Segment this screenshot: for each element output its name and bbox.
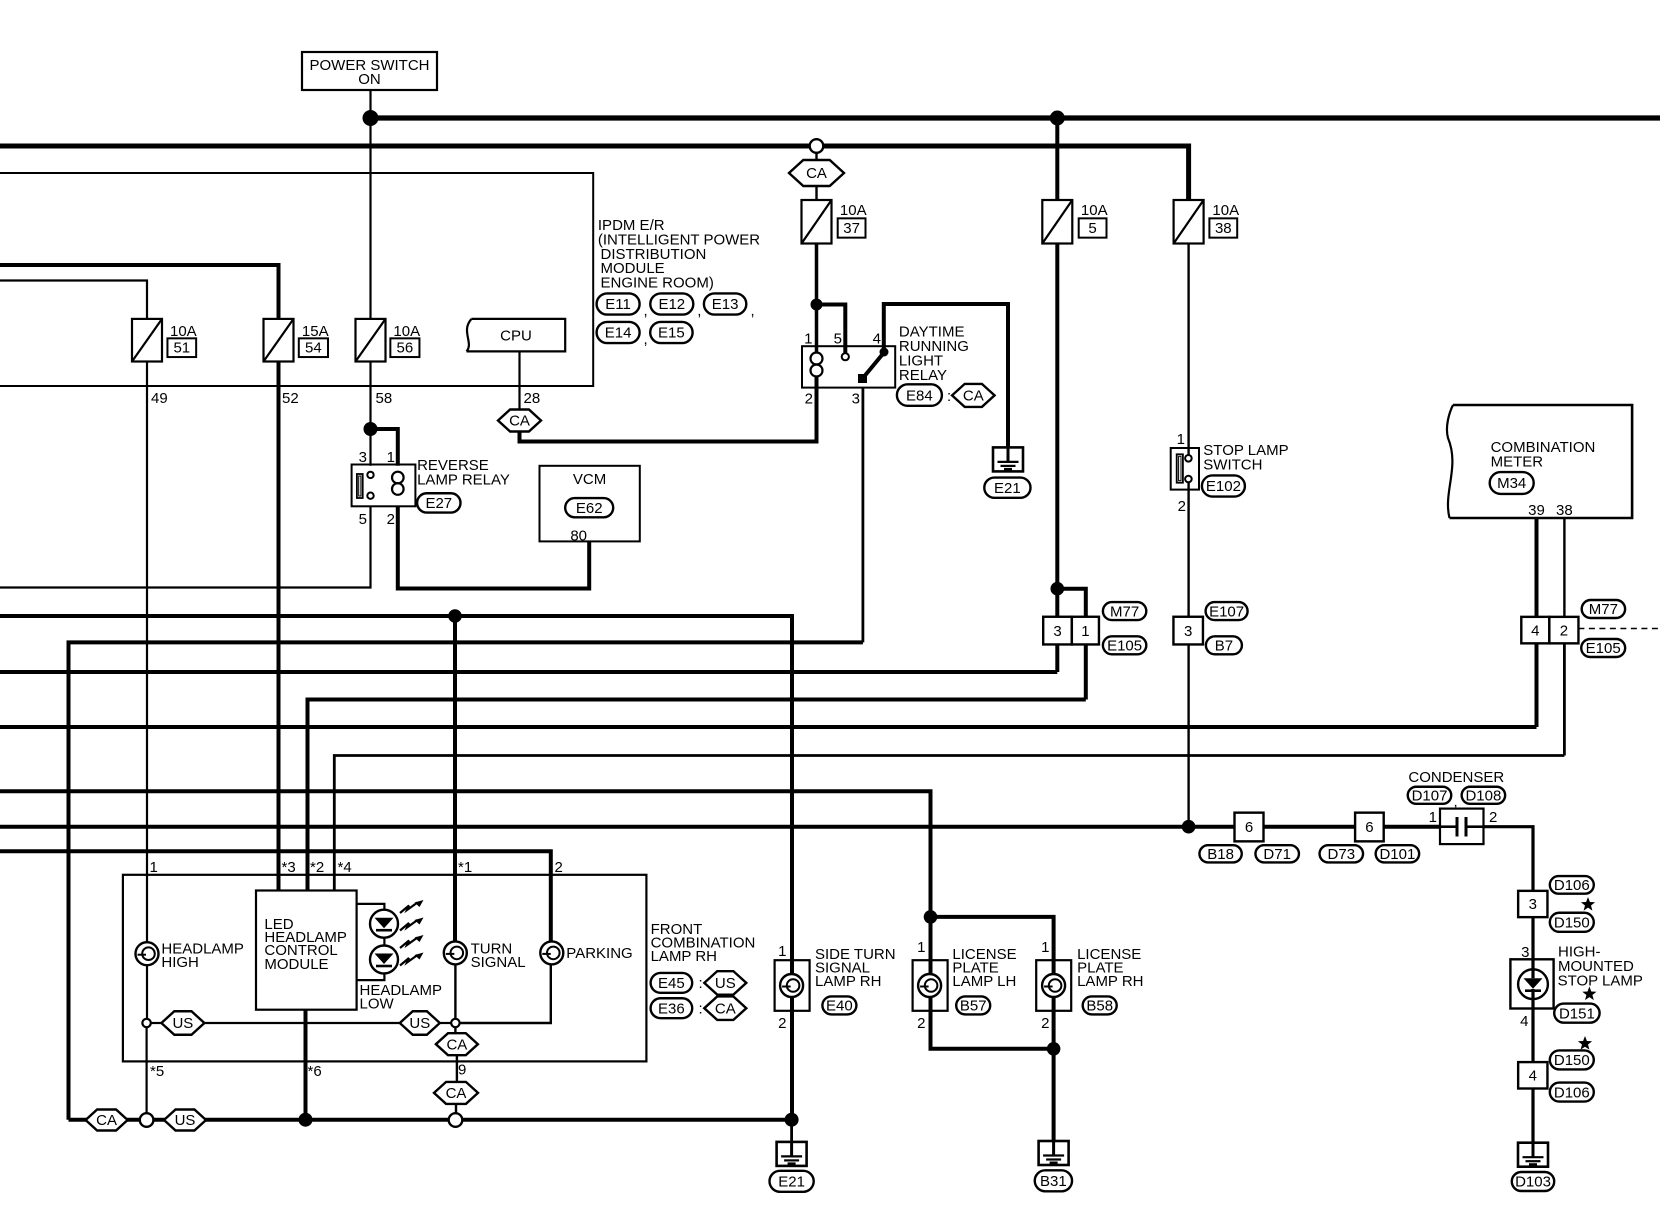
pin 52 (282, 390, 299, 407)
connector E62 (565, 498, 613, 517)
svg-text:LAMP RELAY: LAMP RELAY (417, 472, 510, 489)
node license ground (1047, 1042, 1061, 1056)
wire L7 (334, 756, 1564, 891)
wire branch to box1 (1057, 589, 1086, 617)
node condenser tap (1182, 820, 1196, 834)
svg-text:2: 2 (917, 1015, 925, 1032)
connector E15 (650, 322, 692, 343)
headlamp high bulb (136, 942, 159, 965)
terminal circle turn (451, 1019, 459, 1027)
turn signal bulb (444, 941, 467, 964)
svg-text:D106: D106 (1554, 1084, 1590, 1101)
connector box M77-E105 pin3 (1043, 617, 1072, 645)
connector US lamp1 (161, 1011, 204, 1035)
connector E105 right (1581, 639, 1625, 657)
pin 58 (376, 390, 393, 407)
svg-text:E13: E13 (712, 296, 739, 313)
wire box2 to L7 (1563, 643, 1566, 755)
svg-text:5: 5 (1088, 220, 1096, 237)
wire reverse relay pin5 to L1 (0, 506, 371, 587)
svg-text:10A: 10A (840, 202, 867, 219)
svg-text:28: 28 (524, 390, 541, 407)
svg-text:D150: D150 (1554, 915, 1590, 932)
front combination lamp name (651, 921, 756, 965)
wire US1 to US2 (205, 1022, 400, 1024)
connector E107 (1206, 602, 1248, 620)
svg-text:58: 58 (376, 390, 393, 407)
svg-text:*5: *5 (150, 1063, 164, 1080)
svg-text:B57: B57 (960, 998, 987, 1015)
wire turn bulb to circle (454, 964, 456, 1018)
IPDM E/R text block (598, 217, 760, 292)
svg-text:CA: CA (446, 1036, 467, 1053)
wire bottom ground bus (69, 1118, 792, 1122)
svg-text:3: 3 (852, 391, 860, 408)
combination meter box (1447, 405, 1632, 518)
wire box3r to lamp (1531, 917, 1534, 962)
connector box 3 D106-D150 (1518, 891, 1547, 917)
wire daytime relay pin 4 to ground (884, 304, 1008, 447)
svg-text:E107: E107 (1209, 603, 1244, 620)
fuse 54 15A (264, 319, 294, 362)
svg-text:CA: CA (806, 165, 827, 182)
svg-text:3: 3 (1184, 623, 1192, 640)
terminal circle bus left (140, 1113, 154, 1127)
connector D103 (1512, 1172, 1554, 1191)
wire bulb to circle (146, 965, 148, 1019)
connector E36 (651, 998, 693, 1018)
connector D150 b (1550, 1050, 1594, 1069)
pin 2 daytime (805, 391, 813, 408)
connector B57 (956, 996, 990, 1014)
svg-text:CA: CA (96, 1112, 117, 1129)
svg-text:PARKING: PARKING (566, 945, 632, 962)
condenser name (1408, 769, 1504, 786)
CPU box (467, 319, 566, 352)
wire parking to junction (460, 964, 551, 1023)
svg-text:D151: D151 (1559, 1005, 1595, 1022)
svg-text:LAMP RH: LAMP RH (651, 948, 717, 965)
connector CA 9b (434, 1082, 478, 1104)
svg-text:CPU: CPU (500, 328, 532, 345)
svg-text:M34: M34 (1497, 475, 1526, 492)
svg-text:D150: D150 (1554, 1052, 1590, 1069)
svg-text:*4: *4 (338, 859, 352, 876)
reverse relay coil (392, 472, 404, 495)
svg-text:M77: M77 (1589, 601, 1618, 618)
label 10A fuse51 (170, 323, 197, 340)
VCM label (573, 471, 606, 488)
pin 1 condenser (1429, 809, 1437, 826)
svg-text:1: 1 (150, 859, 158, 876)
fuse 51 10A (132, 319, 162, 362)
wire box3 to L4 (1055, 645, 1059, 673)
wire box4 to L6 (1535, 643, 1539, 727)
module led bracket (357, 904, 385, 980)
svg-text:*2: *2 (310, 859, 324, 876)
wire node to reverse relay pin 3 (369, 429, 371, 466)
svg-text:US: US (715, 975, 736, 992)
svg-text:METER: METER (1491, 454, 1544, 471)
daytime relay coil (811, 353, 823, 377)
wire circle to CA44 (454, 1027, 456, 1033)
svg-text:6: 6 (1245, 819, 1253, 836)
pin *1 lamp (458, 859, 472, 876)
node bus A at power switch (363, 110, 379, 126)
stop lamp switch box (1171, 448, 1199, 490)
wire L4 (0, 670, 1057, 674)
pin 1 license RH (1041, 939, 1049, 956)
license RH bulb (1042, 974, 1065, 997)
connector E40 (822, 996, 856, 1014)
svg-text:LAMP RH: LAMP RH (1077, 973, 1143, 990)
connector E84 (897, 384, 942, 406)
connector CA bus B (789, 160, 844, 186)
svg-text:SIGNAL: SIGNAL (471, 954, 526, 971)
license RH lamp box (1036, 960, 1071, 1011)
led arrows (400, 900, 424, 966)
fuse 56 10A (356, 319, 386, 362)
svg-text:E45: E45 (658, 975, 685, 992)
svg-text:E105: E105 (1107, 638, 1142, 655)
svg-text:LAMP RH: LAMP RH (815, 973, 881, 990)
svg-text:E14: E14 (605, 325, 632, 342)
wire power switch stem (369, 90, 371, 118)
svg-text:49: 49 (151, 390, 168, 407)
connector E45 (651, 973, 693, 993)
connector D106 a (1550, 876, 1594, 894)
connector CA 9a (436, 1033, 478, 1055)
parking bulb (540, 941, 563, 964)
node bus *6 (299, 1113, 313, 1127)
connector box M77-E105 pin4 (1521, 617, 1549, 644)
svg-text:E12: E12 (658, 296, 685, 313)
svg-text:US: US (409, 1015, 430, 1032)
svg-text:B7: B7 (1215, 638, 1233, 655)
connector US E45 (704, 971, 746, 995)
pin 5 daytime (834, 331, 842, 348)
star D151 (1582, 987, 1596, 1001)
svg-text:54: 54 (305, 340, 322, 357)
svg-text:2: 2 (778, 1015, 786, 1032)
connector D107 (1408, 787, 1452, 805)
svg-text:D71: D71 (1263, 846, 1291, 863)
connector E102 (1202, 475, 1245, 496)
svg-text:5: 5 (359, 511, 367, 528)
svg-text:1: 1 (1041, 939, 1049, 956)
wire node to reverse relay pin 1 (371, 429, 398, 466)
svg-text:2: 2 (1178, 498, 1186, 515)
connector E13 (704, 293, 746, 314)
svg-text:HIGH: HIGH (161, 954, 199, 971)
reverse relay contacts (367, 472, 373, 499)
svg-text:LAMP LH: LAMP LH (952, 973, 1016, 990)
side turn lamp box (775, 960, 810, 1011)
connector D108 (1462, 787, 1506, 805)
svg-text:2: 2 (1489, 809, 1497, 826)
reverse relay contact bar (357, 474, 363, 498)
license RH name (1077, 946, 1143, 990)
svg-text:B31: B31 (1040, 1173, 1067, 1190)
pin 2 license RH (1041, 1015, 1049, 1032)
svg-text:2: 2 (555, 859, 563, 876)
pin 49 (151, 390, 168, 407)
pin 2 lamp (555, 859, 563, 876)
colon E84 (947, 388, 951, 405)
svg-text:52: 52 (282, 390, 299, 407)
connector D106 b (1550, 1083, 1594, 1102)
wire L2 turn signal bus (0, 616, 792, 1120)
svg-text:RELAY: RELAY (899, 367, 947, 384)
comma 2 (697, 303, 701, 320)
pin 80 VCM (570, 528, 587, 545)
wire CA to fuse 37 (815, 186, 817, 200)
svg-text:E15: E15 (658, 325, 685, 342)
node daytime relay feed (811, 299, 823, 311)
wire side turn ground stem (790, 1120, 793, 1142)
comma 4 (644, 331, 648, 348)
wire reverse relay pin2 to VCM (398, 506, 589, 588)
svg-text:1: 1 (1081, 623, 1089, 640)
pin 4 daytime (873, 331, 881, 348)
fuse 5 10A (1042, 200, 1072, 244)
pin *4 lamp (338, 859, 352, 876)
license LH name (952, 946, 1016, 990)
svg-text:*1: *1 (458, 859, 472, 876)
ground symbol E21 bottom (777, 1142, 807, 1166)
svg-text:VCM: VCM (573, 471, 606, 488)
svg-text:9: 9 (458, 1062, 466, 1079)
reverse relay box (352, 465, 416, 507)
node license branch (924, 910, 938, 924)
node reverse relay feed (364, 422, 378, 436)
svg-text:E102: E102 (1206, 478, 1241, 495)
connector B31 (1035, 1170, 1072, 1191)
svg-text:10A: 10A (1212, 202, 1239, 219)
svg-text:56: 56 (397, 340, 414, 357)
svg-text:39: 39 (1528, 502, 1545, 519)
svg-text:,: , (697, 303, 701, 320)
svg-text:E11: E11 (605, 296, 631, 313)
wire fuse 54 feed (0, 265, 279, 319)
pin 28 (524, 390, 541, 407)
wire CA to daytime relay pin 2 (520, 388, 817, 442)
headlamp high label (161, 941, 244, 972)
label 10A fuse38 (1212, 202, 1239, 219)
svg-text:4: 4 (1520, 1013, 1528, 1030)
wire fuse 56 feed (369, 118, 371, 319)
svg-text:E40: E40 (826, 998, 853, 1015)
pin 3 reverse (359, 449, 367, 466)
connector E11 (597, 293, 640, 314)
pin 1 daytime (804, 331, 812, 348)
svg-text:STOP LAMP: STOP LAMP (1558, 973, 1643, 990)
terminal circle bus B (810, 139, 824, 153)
pin 38 meter (1556, 502, 1573, 519)
comma D107 (1454, 794, 1458, 811)
svg-text:1: 1 (804, 331, 812, 348)
label 15A fuse54 (302, 323, 329, 340)
connector D151 (1554, 1004, 1599, 1023)
node fuse5 branch (1051, 582, 1065, 596)
power switch label box (302, 52, 437, 90)
side turn bulb (780, 974, 803, 997)
pin *5 (150, 1063, 164, 1080)
wire power bus A y118 (371, 115, 1660, 120)
connector CA E36 (704, 996, 746, 1020)
svg-text:ON: ON (358, 71, 381, 88)
svg-text:*3: *3 (282, 859, 296, 876)
wire license LH down (931, 917, 1054, 1049)
connector E105 left (1103, 636, 1146, 654)
connector D101 (1376, 845, 1420, 863)
pin 2 condenser (1489, 809, 1497, 826)
wire fuse51 to headlamp high (146, 362, 148, 943)
colon E36 (699, 1001, 703, 1018)
terminal circle headlamp high (142, 1019, 150, 1027)
turn signal wire upper (453, 616, 457, 942)
label 54 box (299, 338, 328, 357)
headlamp low LED 2 (370, 946, 398, 974)
svg-text:1: 1 (917, 939, 925, 956)
wire US2 to circle (440, 1022, 451, 1024)
pin 2 reverse (387, 511, 395, 528)
headlamp low label (360, 982, 443, 1013)
wire CA44 to CA93 (456, 1055, 458, 1082)
label 10A fuse5 (1081, 202, 1108, 219)
front combination lamp box (123, 875, 647, 1062)
svg-text:4: 4 (873, 331, 881, 348)
wire daytime relay pin 3 to L3 (862, 388, 865, 643)
svg-text:37: 37 (843, 220, 860, 237)
svg-text:,: , (751, 303, 755, 320)
wire meter pin38 (1563, 518, 1565, 617)
daytime relay name (899, 324, 969, 385)
wire fuse54 to module pin *3 (277, 362, 281, 891)
wire *5 down (146, 1027, 148, 1113)
pin 1 stop lamp (1177, 431, 1185, 448)
svg-text:D73: D73 (1328, 846, 1356, 863)
svg-text:D103: D103 (1515, 1174, 1551, 1191)
label 5 box (1079, 218, 1107, 237)
svg-text:38: 38 (1556, 502, 1573, 519)
label 56 box (390, 338, 419, 357)
connector D150 a (1550, 913, 1594, 932)
module name (264, 916, 347, 973)
daytime relay box (802, 346, 895, 387)
license LH lamp box (913, 960, 948, 1011)
fuse 37 10A (802, 200, 832, 244)
wire L5 (308, 700, 1086, 891)
wire fuse37 to daytime relay (815, 244, 819, 353)
connector box 6 B18-D71 (1235, 813, 1264, 842)
stop lamp switch bar (1177, 454, 1183, 482)
wire license branch to RH (931, 917, 1054, 1049)
condenser C1 (1440, 809, 1484, 845)
svg-text:2: 2 (1041, 1015, 1049, 1032)
IPDM E/R enclosure (0, 173, 593, 386)
node L2 turn tap (448, 609, 462, 623)
pin *3 lamp (282, 859, 296, 876)
node bus A fuse 5 tap (1050, 111, 1065, 126)
star D150b (1578, 1036, 1592, 1050)
side turn name (815, 946, 896, 990)
pin 39 meter (1528, 502, 1545, 519)
svg-text:2: 2 (1560, 622, 1568, 639)
svg-text:38: 38 (1215, 220, 1232, 237)
connector M77 left (1103, 602, 1146, 620)
pin 2 license LH (917, 1015, 925, 1032)
connector box 6 D73-D101 (1355, 813, 1384, 842)
pin 5 reverse (359, 511, 367, 528)
svg-text:1: 1 (778, 943, 786, 960)
svg-text:E27: E27 (425, 495, 452, 512)
wire fuse56 to node (369, 362, 371, 430)
turn signal label (471, 941, 526, 972)
dashed wire to right edge (1578, 628, 1660, 630)
connector box E107-B7 (1173, 617, 1203, 645)
daytime relay pin5 contact (842, 353, 849, 360)
pin 3 high mounted (1521, 944, 1529, 961)
connector box M77-E105 pin1 (1072, 617, 1099, 645)
svg-text:B18: B18 (1207, 846, 1234, 863)
svg-text:E21: E21 (994, 480, 1021, 497)
connector CA E84 (952, 384, 995, 407)
svg-text::: : (699, 975, 703, 992)
wire circle to US1 (151, 1022, 162, 1024)
svg-text:,: , (644, 303, 648, 320)
wire license to ground (1052, 1049, 1056, 1141)
connector M77 right (1582, 600, 1625, 618)
svg-text:E105: E105 (1586, 640, 1621, 657)
wire *6 module to bus (304, 1010, 308, 1120)
pin 1 side turn (778, 943, 786, 960)
label 51 box (167, 338, 196, 357)
wire L8b condenser line (0, 825, 1440, 829)
connector M34 (1490, 472, 1534, 494)
svg-text:B58: B58 (1086, 998, 1113, 1015)
wire L3 ground bus (69, 642, 863, 1119)
connector US bus (164, 1110, 206, 1131)
svg-text:*6: *6 (308, 1063, 322, 1080)
connector E12 (650, 293, 693, 314)
label 10A fuse37 (840, 202, 867, 219)
wire L8a license feed (0, 791, 931, 917)
wire fuse5 to connector node (1055, 244, 1059, 617)
svg-text:2: 2 (805, 391, 813, 408)
wire L9 parking feed (0, 851, 551, 941)
license LH bulb (918, 974, 941, 997)
colon E45 (699, 975, 703, 992)
pin 4 high mounted (1520, 1013, 1528, 1030)
wire power bus B y146 to fuse 38 (0, 146, 1189, 200)
star D106a (1581, 897, 1595, 911)
svg-text:5: 5 (834, 331, 842, 348)
connector CA cpu28 (498, 410, 541, 432)
connector B58 (1083, 996, 1117, 1014)
svg-text:LOW: LOW (360, 996, 395, 1013)
svg-text:CA: CA (715, 1000, 736, 1017)
stop lamp switch contacts (1185, 455, 1192, 482)
fuse 38 10A (1174, 200, 1204, 244)
high mounted name (1558, 944, 1643, 990)
connector E21 relay (984, 478, 1030, 498)
svg-text:,: , (644, 331, 648, 348)
svg-text:D107: D107 (1412, 788, 1448, 805)
connector CA bus (86, 1110, 128, 1131)
wire stop lamp to E107 box (1187, 482, 1189, 617)
led headlamp control module box (256, 891, 357, 1010)
